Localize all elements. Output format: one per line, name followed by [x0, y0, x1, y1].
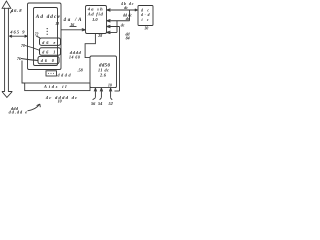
bottom arrow 1: [93, 88, 97, 100]
dots in small box: [48, 73, 49, 74]
leader 72: [36, 36, 40, 38]
svg-text:dc: dc: [124, 6, 128, 10]
svg-text:465 9: 465 9: [9, 29, 25, 34]
svg-text:dddd: dddd: [70, 50, 82, 55]
svg-text:d-d: d-d: [141, 13, 150, 17]
register box 78: [40, 48, 61, 55]
wire C right y26.5: [107, 25, 120, 28]
svg-text:Ad fid: Ad fid: [87, 12, 104, 17]
caption leader arrow: [28, 104, 41, 111]
dimension arrow 465-9: [9, 35, 27, 37]
svg-text:46.8: 46.8: [10, 8, 22, 13]
svg-text:d6 0: d6 0: [41, 58, 54, 63]
down hollow arrow head: [2, 92, 12, 98]
svg-text:14 60: 14 60: [69, 55, 80, 59]
svg-text:dddd: dddd: [58, 72, 72, 77]
svg-text:Ad ddce: Ad ddce: [35, 14, 61, 20]
wire outer box to top center box: [61, 27, 86, 31]
vertical wire x119.5: [119, 27, 121, 92]
bottom arrow 3: [109, 88, 112, 100]
svg-text:d6 1: d6 1: [42, 49, 55, 54]
svg-text:10: 10: [58, 100, 62, 104]
svg-text:d6 e: d6 e: [42, 40, 55, 45]
svg-text:Aids il: Aids il: [43, 84, 67, 89]
label leader 46.8: [10, 10, 12, 13]
flat bottom box: [25, 83, 90, 91]
leader 78: [25, 46, 40, 51]
small dotted box: [46, 71, 57, 76]
svg-text:28: 28: [97, 33, 102, 38]
register box 76: [38, 56, 59, 63]
svg-text:1.0: 1.0: [92, 17, 98, 22]
svg-text:.58: .58: [78, 67, 84, 72]
leader 76: [21, 59, 39, 61]
svg-text:76: 76: [17, 57, 21, 61]
up hollow arrow shaft: [5, 8, 9, 92]
up hollow arrow head: [2, 1, 11, 8]
svg-text:dc: dc: [141, 9, 149, 13]
svg-text:78: 78: [21, 44, 25, 48]
wire B right y20: [107, 10, 130, 22]
tall center box 20: [90, 56, 117, 88]
svg-text:30: 30: [144, 27, 149, 31]
svg-text:72: 72: [35, 33, 39, 37]
svg-text:4a sh: 4a sh: [87, 6, 103, 11]
left drop wire: [22, 61, 25, 84]
outer box 10: [28, 3, 62, 70]
right box 30: [138, 6, 153, 26]
wire top box down to flat box: [85, 34, 95, 58]
dots ellipsis in inner box: [47, 28, 48, 29]
svg-text:dd.dd e: dd.dd e: [9, 110, 28, 115]
svg-text:54: 54: [98, 101, 103, 106]
top center box 10: [86, 6, 107, 34]
svg-text:12: 12: [55, 22, 59, 26]
bottom wire to right riser: [115, 90, 120, 92]
inner box 12: [34, 8, 58, 66]
svg-text:dc: dc: [126, 17, 130, 21]
bottom arrow 2: [100, 88, 103, 100]
svg-text:ic: ic: [142, 18, 149, 22]
svg-text:16: 16: [70, 22, 74, 27]
register box 72: [40, 38, 61, 45]
svg-text:dc: dc: [121, 23, 125, 27]
wire A right y10.5: [107, 9, 138, 12]
svg-text:84: 84: [126, 35, 130, 40]
svg-text:10: 10: [108, 84, 112, 88]
svg-text:52: 52: [109, 101, 114, 106]
svg-text:2.6: 2.6: [99, 72, 107, 77]
wire D right y32.4: [107, 21, 118, 34]
svg-text:56: 56: [91, 101, 96, 106]
